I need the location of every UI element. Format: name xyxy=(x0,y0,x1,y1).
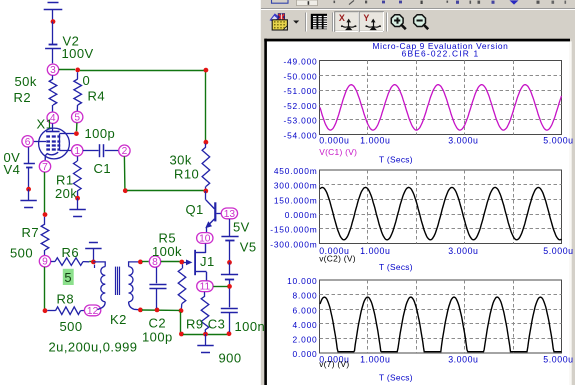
label R8 xyxy=(57,291,75,306)
svg-text:T (Secs): T (Secs) xyxy=(379,373,413,383)
svg-text:6.000: 6.000 xyxy=(293,305,318,315)
svg-text:5.000u: 5.000u xyxy=(543,246,573,256)
svg-text:R8: R8 xyxy=(57,291,75,306)
node 13 xyxy=(221,208,237,220)
ground below R1 xyxy=(69,198,85,216)
node 9 xyxy=(39,256,50,268)
svg-text:0.000u: 0.000u xyxy=(319,135,349,145)
toolbar zoom-in icon xyxy=(391,15,406,30)
label Q1 xyxy=(186,202,204,217)
plot 2 axes xyxy=(270,166,561,250)
node 5 xyxy=(72,111,83,123)
svg-text:450.000m: 450.000m xyxy=(274,166,318,176)
svg-text:-54.000: -54.000 xyxy=(283,130,317,140)
label 30k xyxy=(170,153,192,168)
junction R5 bottom xyxy=(179,308,184,313)
plot 1 waveform v(C1) xyxy=(320,85,562,130)
node 4 xyxy=(47,112,58,124)
svg-text:-49.000: -49.000 xyxy=(283,57,317,67)
svg-text:13: 13 xyxy=(224,209,236,220)
plot 3 x-axis labels xyxy=(319,354,573,364)
wire node2 down xyxy=(123,156,126,189)
plot 3 x-axis title xyxy=(379,373,413,383)
svg-text:R4: R4 xyxy=(88,89,106,104)
label 0 xyxy=(83,73,91,88)
junction R7 top xyxy=(43,212,48,217)
svg-text:150.000m: 150.000m xyxy=(274,195,318,205)
svg-text:7: 7 xyxy=(42,162,48,173)
toolbar auto-scale-Y button xyxy=(359,12,383,32)
junction V5 bottom xyxy=(227,284,232,289)
resistor R4 xyxy=(74,72,82,111)
capacitor C3 xyxy=(221,289,238,333)
label 5V xyxy=(233,220,250,235)
wire node9 down xyxy=(44,267,46,309)
wire node5 to screen xyxy=(76,123,78,131)
ground above transformer xyxy=(85,243,101,260)
label J1 xyxy=(200,254,215,269)
svg-text:X: X xyxy=(339,13,345,23)
label 50k xyxy=(15,74,37,89)
svg-text:J1: J1 xyxy=(200,254,215,269)
svg-text:2: 2 xyxy=(122,146,128,157)
right panel background xyxy=(261,0,575,385)
svg-text:8.000: 8.000 xyxy=(293,291,318,301)
toolbar separator 1 xyxy=(306,13,307,32)
plot 2 x-axis labels xyxy=(319,246,573,256)
svg-text:v(7) (V): v(7) (V) xyxy=(319,359,349,369)
junction above V2 xyxy=(51,19,56,24)
node 11 xyxy=(197,281,213,293)
label 100n xyxy=(235,319,266,334)
label 500 (R7) xyxy=(10,245,33,260)
svg-text:5.000u: 5.000u xyxy=(543,135,573,145)
svg-text:11: 11 xyxy=(200,282,211,293)
svg-text:3: 3 xyxy=(50,65,56,76)
svg-text:R9: R9 xyxy=(186,316,204,331)
junction R8 left xyxy=(43,308,48,313)
svg-text:Y: Y xyxy=(363,13,369,23)
node 10 xyxy=(197,233,213,245)
vacuum tube X1 xyxy=(33,123,74,160)
junction at R10 top xyxy=(204,140,209,145)
wire K2 to node8 xyxy=(142,261,149,263)
wire lower rail xyxy=(183,334,227,336)
svg-text:10: 10 xyxy=(199,234,211,245)
label 100V xyxy=(62,46,94,61)
battery V2 xyxy=(45,22,61,64)
capacitor C2 xyxy=(149,267,166,308)
svg-text:-50.000: -50.000 xyxy=(283,71,317,81)
plot title xyxy=(373,41,509,58)
svg-text:5V: 5V xyxy=(233,220,250,235)
node 8 xyxy=(149,256,160,268)
battery V5 lower cell xyxy=(221,262,238,285)
node 7 xyxy=(39,161,50,173)
resistor R7 xyxy=(41,217,49,256)
transistor J1 xyxy=(184,244,207,281)
net label 5 highlighted xyxy=(63,269,74,285)
label R9 xyxy=(186,316,204,331)
plot 1 x-axis labels xyxy=(319,135,573,145)
wire to R10 column xyxy=(80,70,206,140)
resistor R1 xyxy=(74,156,82,196)
svg-text:30k: 30k xyxy=(170,153,192,168)
label 0V xyxy=(4,150,21,165)
transformer K2 xyxy=(93,262,140,310)
wire R6 to junction xyxy=(89,261,91,263)
label 100p (C1) xyxy=(85,126,116,141)
svg-text:900: 900 xyxy=(219,351,242,366)
svg-text:2u,200u,0.999: 2u,200u,0.999 xyxy=(49,339,138,354)
svg-text:10.000: 10.000 xyxy=(287,276,317,286)
label V5 xyxy=(240,240,257,255)
junction R6 right xyxy=(91,260,96,265)
svg-text:5: 5 xyxy=(64,270,72,285)
node 2 xyxy=(119,145,130,157)
svg-text:100n: 100n xyxy=(235,319,266,334)
svg-text:100V: 100V xyxy=(62,46,94,61)
resistor R8 xyxy=(47,307,84,315)
junction below V4 xyxy=(26,187,31,192)
toolbar separator 3 xyxy=(387,13,388,32)
plot window frame xyxy=(264,39,571,385)
svg-text:100p: 100p xyxy=(142,329,173,344)
node 3 xyxy=(47,64,58,76)
label K2 xyxy=(110,312,127,327)
svg-text:X1: X1 xyxy=(37,117,54,132)
svg-text:50k: 50k xyxy=(15,74,37,89)
label C1 xyxy=(94,161,112,176)
svg-text:100p: 100p xyxy=(85,126,116,141)
svg-text:5: 5 xyxy=(74,113,80,124)
svg-text:-300.000m: -300.000m xyxy=(270,239,317,249)
junction mid V5 xyxy=(227,260,232,265)
wire corner to Q1 collector xyxy=(127,190,204,192)
junction at wire corner xyxy=(204,68,209,73)
junction below R1 xyxy=(75,196,80,201)
svg-text:0.000m: 0.000m xyxy=(285,210,318,220)
plot 3 waveform v(7) xyxy=(320,297,562,352)
wire node3 to R4 top xyxy=(59,69,75,71)
svg-text:R10: R10 xyxy=(174,166,199,181)
svg-text:100k: 100k xyxy=(152,244,182,259)
toolbar top partial row xyxy=(261,0,575,10)
svg-text:6: 6 xyxy=(25,137,31,148)
svg-text:-150.000m: -150.000m xyxy=(270,225,317,235)
battery V5 xyxy=(221,219,238,261)
svg-text:V5: V5 xyxy=(240,240,257,255)
label X1 xyxy=(37,117,54,132)
wire transformer bottom row xyxy=(142,309,180,311)
node 1 xyxy=(72,145,83,157)
junction at R4 top xyxy=(75,68,80,73)
junction K2 secondary bottom xyxy=(138,308,143,313)
junction screen grid xyxy=(74,131,79,136)
svg-text:0: 0 xyxy=(83,73,91,88)
resistor R9 xyxy=(201,292,209,333)
svg-text:R1: R1 xyxy=(56,172,74,187)
junction C2 bottom xyxy=(155,308,160,313)
toolbar auto-scale-X button xyxy=(335,12,359,32)
toolbar zoom-out icon xyxy=(414,15,429,30)
resistor R6 xyxy=(51,258,90,266)
svg-text:12: 12 xyxy=(87,306,99,317)
svg-text:3.000u: 3.000u xyxy=(448,354,478,364)
label 900 xyxy=(219,351,242,366)
svg-text:K2: K2 xyxy=(110,312,127,327)
wire node8 to gate junction xyxy=(161,261,180,263)
svg-text:1.000u: 1.000u xyxy=(360,354,390,364)
svg-text:T (Secs): T (Secs) xyxy=(379,262,413,272)
transistor Q1 xyxy=(205,191,221,233)
junction lower rail left xyxy=(179,332,184,337)
toolbar separator 2 xyxy=(333,13,334,32)
svg-text:1.000u: 1.000u xyxy=(360,135,390,145)
svg-text:20k: 20k xyxy=(55,186,77,201)
svg-text:C3: C3 xyxy=(208,316,226,331)
toolbar numeric-output icon xyxy=(311,14,327,29)
svg-text:-51.000: -51.000 xyxy=(283,86,317,96)
svg-text:R2: R2 xyxy=(14,90,32,105)
label V4 xyxy=(4,162,21,177)
svg-text:2.000: 2.000 xyxy=(293,334,318,344)
label R1 xyxy=(56,172,74,187)
svg-text:T (Secs): T (Secs) xyxy=(379,155,413,165)
resistor R2 xyxy=(49,75,57,112)
label 500 (R8) xyxy=(60,319,83,334)
svg-text:4.000: 4.000 xyxy=(293,320,318,330)
label V2 xyxy=(63,34,80,49)
svg-text:V(C1) (V): V(C1) (V) xyxy=(319,147,357,157)
ground at top of V2 xyxy=(44,3,63,20)
node 6 xyxy=(22,136,33,148)
wire node7 down xyxy=(44,172,46,213)
junction lower rail mid xyxy=(203,332,208,337)
svg-text:3.000u: 3.000u xyxy=(448,246,478,256)
svg-text:R6: R6 xyxy=(62,245,80,260)
junction J1 gate xyxy=(179,260,184,265)
plot 3 axes xyxy=(287,276,561,359)
label C2 xyxy=(149,316,167,331)
junction Q1 collector xyxy=(203,189,208,194)
plot 3 curve label xyxy=(319,359,349,369)
pin tick at junction xyxy=(94,265,96,268)
svg-text:v(C2) (V): v(C2) (V) xyxy=(319,253,356,263)
label R10 xyxy=(174,166,199,181)
resistor R10 xyxy=(202,144,210,190)
label 20k xyxy=(55,186,77,201)
label R6 xyxy=(62,245,80,260)
junction lower rail right xyxy=(227,331,232,336)
junction K2 secondary top xyxy=(138,260,143,265)
label 2u,200u,0.999 xyxy=(49,339,138,354)
junction node2 corner xyxy=(123,188,128,193)
wire R5 bottom to lower rail xyxy=(180,312,182,333)
toolbar properties icon xyxy=(270,13,300,30)
wire node11 to V5 bottom xyxy=(213,286,227,288)
label R4 xyxy=(88,89,106,104)
svg-text:C2: C2 xyxy=(149,316,167,331)
svg-text:5.000u: 5.000u xyxy=(543,354,573,364)
svg-text:6BE6-022.CIR 1: 6BE6-022.CIR 1 xyxy=(402,48,480,58)
battery V4 xyxy=(24,147,35,187)
ground below lower rail xyxy=(197,334,213,352)
svg-text:1: 1 xyxy=(74,146,80,157)
capacitor C1 xyxy=(83,144,119,157)
svg-text:-52.000: -52.000 xyxy=(283,101,317,111)
svg-text:500: 500 xyxy=(10,245,33,260)
label C3 xyxy=(208,316,226,331)
ground below V4 xyxy=(20,189,36,207)
resistor R5 xyxy=(178,264,186,308)
svg-text:1.000u: 1.000u xyxy=(360,246,390,256)
svg-text:0.000: 0.000 xyxy=(293,349,318,359)
svg-text:V4: V4 xyxy=(4,162,21,177)
svg-text:500: 500 xyxy=(60,319,83,334)
svg-text:300.000m: 300.000m xyxy=(274,181,318,191)
label R2 xyxy=(14,90,32,105)
plot 1 curve label xyxy=(319,147,357,157)
label R7 xyxy=(22,225,40,240)
plot 2 curve label xyxy=(319,253,356,263)
node 12 xyxy=(84,305,100,317)
svg-text:9: 9 xyxy=(42,257,48,268)
label 100k xyxy=(152,244,182,259)
plot 1 axes xyxy=(283,57,561,141)
label 100p (C2) xyxy=(142,329,173,344)
label R5 xyxy=(159,230,177,245)
svg-text:C1: C1 xyxy=(94,161,112,176)
plot 2 x-axis title xyxy=(379,262,413,272)
svg-text:R7: R7 xyxy=(22,225,40,240)
plot 1 x-axis title xyxy=(379,155,413,165)
svg-text:Q1: Q1 xyxy=(186,202,204,217)
svg-text:3.000u: 3.000u xyxy=(448,135,478,145)
plot 2 waveform v(C2) xyxy=(320,187,562,239)
svg-text:-53.000: -53.000 xyxy=(283,116,317,126)
